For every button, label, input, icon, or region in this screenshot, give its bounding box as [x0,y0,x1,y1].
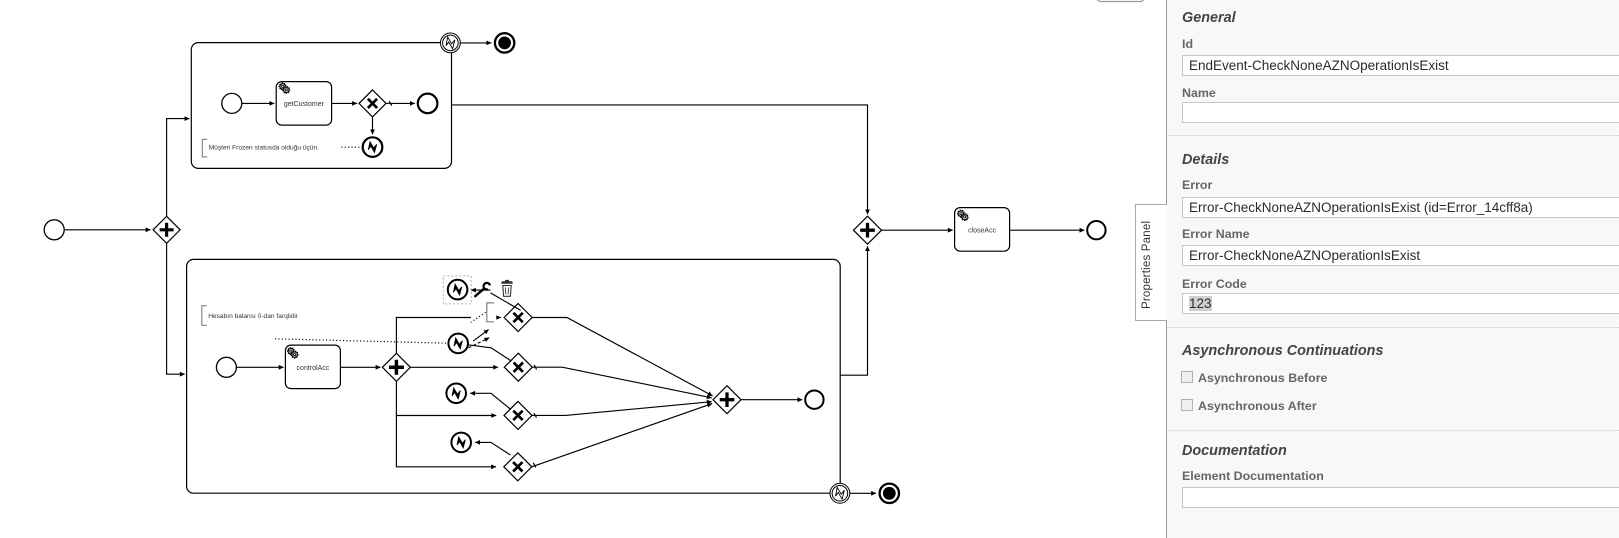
svg-text:Hesabın balansı 0-dan farqlidi: Hesabın balansı 0-dan farqlidir [208,313,299,320]
top cut-off toolbar box [1097,0,1144,2]
start event subprocess1 [222,93,242,113]
error intermediate event E4 [451,433,471,453]
wire X1 to join G4 [532,318,713,396]
exclusive gateway X1 [504,304,532,332]
error event E1 connection from X1 [491,293,521,311]
association dotted annotation2 to E2 [275,339,447,343]
end event subprocess1 [418,94,438,114]
error intermediate event E2 [448,334,468,354]
wire X3 to E3 [470,393,511,409]
task getCustomer [276,82,331,126]
default slash X3 [534,413,537,418]
svg-text:Müşteri Frozen statusda olduğu: Müşteri Frozen statusda olduğu üçün. [209,144,319,151]
error end event subprocess1 [363,137,383,157]
wire B2 to terminate end T2 [850,492,876,494]
wire GX1 to end event [386,102,415,104]
wire subprocess1 to gateway G2 [452,105,868,214]
wire G4 to end event [741,399,802,401]
exclusive gateway X3 [504,401,532,429]
wire B1 to terminate end T1 [461,42,492,44]
end event subprocess2 [805,391,823,409]
end event main right [1087,221,1105,239]
properties panel tab [1135,204,1167,321]
wire G1 to subprocess 2 [167,243,185,374]
wire start to parallel gateway G1 [65,229,151,231]
parallel gateway G2 [854,216,882,244]
dotted association bracket to E2 [471,312,486,322]
default flow slash [389,101,392,106]
svg-text:controlAcc: controlAcc [297,365,330,372]
dashed arrow B from E2 [469,338,490,348]
wire subprocess2 to gateway G2 [840,246,867,375]
boundary error event B1 [441,33,461,53]
bracket annotation near X1 [486,302,496,323]
terminate end event T2 [880,484,899,503]
default slash X2 [534,365,537,370]
start event subprocess2 [216,357,236,377]
exclusive gateway GX1 [359,90,386,117]
wire X3 to join G4 [532,402,712,416]
exclusive gateway X4 [504,453,532,481]
wire G2 to closeAcc [882,229,953,231]
wire to controlAcc [237,366,284,368]
wire G3 down to X4 [396,416,496,467]
terminate end event T1 [495,33,514,52]
wire X2 to join G4 [532,367,711,398]
text annotation subprocess1 [202,139,319,157]
svg-text:getCustomer: getCustomer [284,101,325,108]
wire G3 up to X1 [396,318,500,354]
wire getCustomer to X gateway GX1 [332,102,357,104]
parallel gateway G3 [382,353,410,381]
wire G1 to subprocess 1 [167,119,190,217]
error intermediate event E1 [448,280,468,300]
parallel gateway G1 [153,216,180,243]
wire controlAcc to parallel gateway G3 [340,366,380,368]
wire X4 to join G4 [532,404,712,467]
wire G3 to X2 [410,366,498,368]
task closeAcc [955,208,1010,252]
wire GX1 down to error end event [372,117,374,134]
dashed arrow A from E2 [473,330,488,342]
wire to getCustomer [242,102,274,104]
wire X4 to E4 [475,442,510,455]
boundary error event B2 [830,483,850,503]
svg-text:closeAcc: closeAcc [968,227,997,234]
task controlAcc [285,345,340,389]
association dotted to error end [341,146,359,148]
selection box around E1 [443,276,471,304]
subprocess 2 [187,259,841,493]
text annotation subprocess2 [202,306,299,326]
subprocess 1 [191,43,451,169]
wire G3 down to X3 [396,381,496,415]
parallel join gateway G4 [713,386,741,414]
wire closeAcc to end event [1010,229,1085,231]
properties panel [1166,0,1619,538]
exclusive gateway X2 [504,353,532,381]
wrench icon [475,283,490,296]
start event main [44,220,64,240]
wire E2 to X2 [468,345,512,361]
default slash X4 [533,463,536,468]
trash icon [502,280,513,296]
error intermediate event E3 [446,384,466,404]
